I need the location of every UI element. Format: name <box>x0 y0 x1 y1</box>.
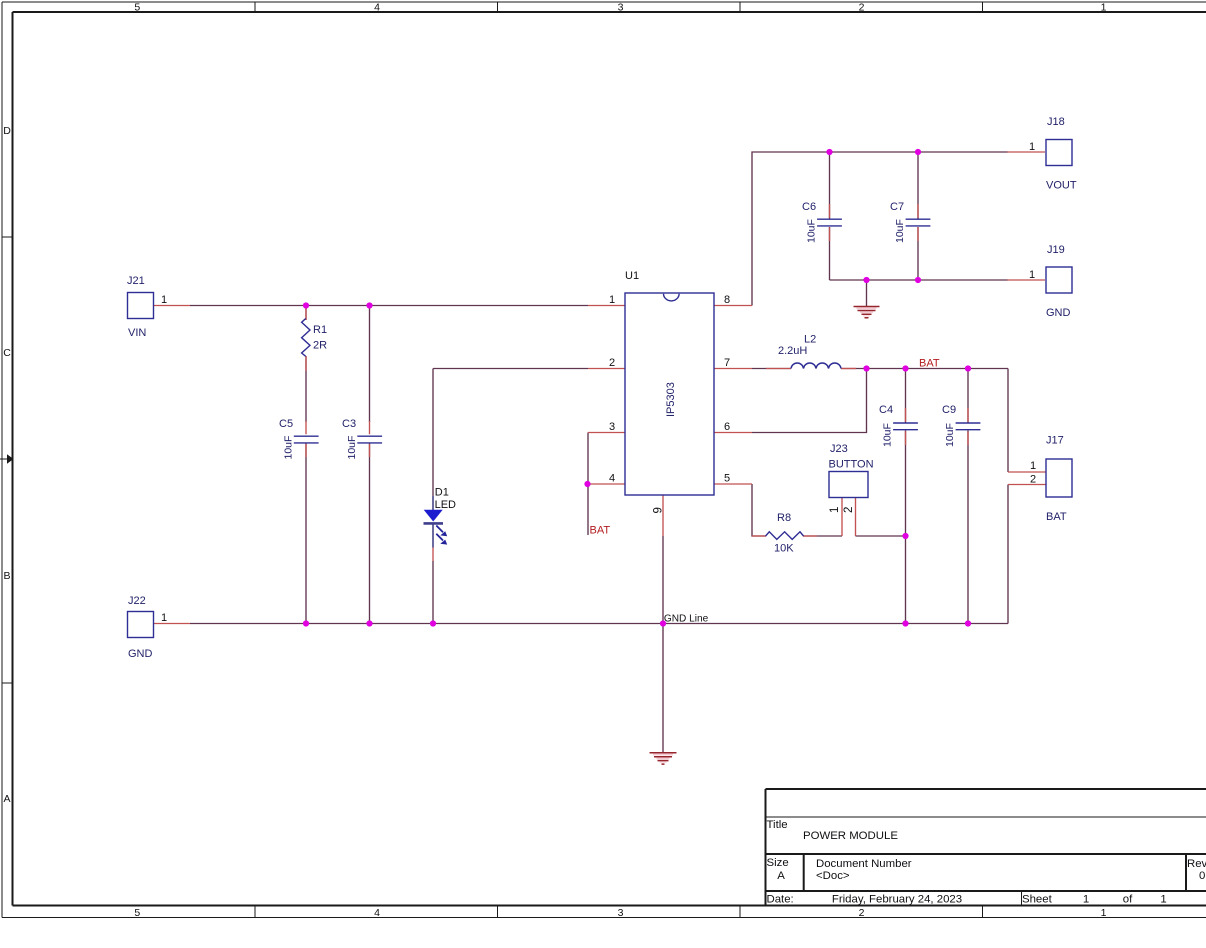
wire gnd bus bottom <box>190 623 1008 625</box>
svg-text:IP5303: IP5303 <box>665 382 677 417</box>
svg-text:1: 1 <box>829 507 841 513</box>
junction R1 top on VIN wire <box>303 302 309 308</box>
svg-text:Size: Size <box>767 857 789 869</box>
svg-text:4: 4 <box>374 1 380 13</box>
svg-text:1: 1 <box>609 294 615 306</box>
pin U1 pin4 <box>588 483 625 485</box>
svg-text:4: 4 <box>374 907 380 919</box>
junction D1 bottom on gnd bus <box>430 620 436 626</box>
svg-text:D1: D1 <box>435 487 449 499</box>
wire C7 top leg <box>917 152 919 219</box>
IC U1 IP5303 <box>609 270 730 514</box>
pin J23 pin2 <box>855 498 857 537</box>
pin R8 left <box>752 535 766 537</box>
junction C4 top on BAT wire <box>902 365 908 371</box>
ground symbol bottom <box>650 753 677 764</box>
junction C7 top on VOUT wire <box>915 149 921 155</box>
capacitor C7 <box>890 201 930 243</box>
junction pin4 on pin3 riser <box>584 481 590 487</box>
border column labels bottom <box>134 907 1106 919</box>
junction C9 bottom on gnd bus <box>965 620 971 626</box>
border column ticks top <box>255 2 983 12</box>
resistor R1 <box>302 319 328 357</box>
capacitor C9 <box>942 404 980 447</box>
svg-text:J18: J18 <box>1047 116 1065 128</box>
svg-text:7: 7 <box>724 357 730 369</box>
svg-text:L2: L2 <box>804 334 816 346</box>
svg-text:2: 2 <box>1030 474 1036 486</box>
junction C3 top on VIN wire <box>366 302 372 308</box>
title block text Size <box>767 857 789 882</box>
svg-text:C9: C9 <box>942 404 956 416</box>
svg-text:A: A <box>777 870 785 882</box>
wire U1 pin7 to L2 <box>752 368 791 370</box>
pin C3 stubs <box>369 421 371 457</box>
svg-text:10uF: 10uF <box>882 423 894 447</box>
pin U1 pin7 <box>714 368 752 370</box>
svg-text:R1: R1 <box>313 324 327 336</box>
connector J18 <box>1029 116 1077 192</box>
junction C7 bottom on bus <box>915 277 921 283</box>
net label BAT right <box>919 358 940 370</box>
wire C4 top leg <box>905 369 907 423</box>
wire pin8 riser and VOUT top <box>752 152 1008 306</box>
LED D1 <box>424 487 457 548</box>
pin U1 pin6 <box>714 432 752 434</box>
svg-text:4: 4 <box>609 473 615 485</box>
wire L2 to BAT corner <box>841 368 1008 370</box>
svg-text:1: 1 <box>1029 141 1035 153</box>
svg-text:5: 5 <box>134 1 140 13</box>
svg-text:1: 1 <box>1101 907 1107 919</box>
svg-text:J21: J21 <box>127 275 145 287</box>
svg-text:2: 2 <box>609 357 615 369</box>
svg-text:1: 1 <box>161 612 167 624</box>
junction C6 top on VOUT wire <box>826 149 832 155</box>
pin J23 pin1 <box>841 498 843 537</box>
border column labels top <box>134 1 1106 13</box>
net label BAT left <box>590 524 611 536</box>
svg-text:2: 2 <box>859 1 865 13</box>
wire C7 bottom leg <box>917 227 919 280</box>
svg-text:of: of <box>1123 894 1133 906</box>
pin L2 right <box>841 368 856 370</box>
svg-text:10K: 10K <box>774 543 794 555</box>
wire C9 bottom leg <box>967 431 969 624</box>
svg-text:J23: J23 <box>830 443 848 455</box>
svg-text:Rev: Rev <box>1187 858 1206 870</box>
junction ground stub on C6 C7 bus <box>863 277 869 283</box>
junction J23 pin2 wire on C4 leg <box>902 533 908 539</box>
pin J18 pin1 <box>1007 151 1045 153</box>
wire BAT corner down to J17 pin1 <box>1007 369 1009 473</box>
pin J22 pin1 <box>154 623 191 625</box>
svg-text:POWER MODULE: POWER MODULE <box>803 830 898 842</box>
pin C6 stubs <box>829 204 831 241</box>
pin U1 pin1 <box>588 305 625 307</box>
svg-text:2: 2 <box>843 507 855 513</box>
pin U1 pin8 <box>714 305 752 307</box>
net label GND Line <box>664 613 709 624</box>
svg-text:10uF: 10uF <box>283 436 295 460</box>
wire C9 top leg <box>967 369 969 423</box>
wire bus C6 to J19 <box>830 279 1009 281</box>
title block text POWER MODULE <box>803 830 898 842</box>
svg-text:Sheet: Sheet <box>1022 894 1053 906</box>
capacitor C5 <box>279 418 319 460</box>
title block text Date <box>767 894 963 906</box>
wire U1 pin2 to LED riser <box>433 368 588 370</box>
wire J17 pin2 down to gnd bus <box>1007 485 1009 624</box>
svg-text:C4: C4 <box>879 404 893 416</box>
svg-text:1: 1 <box>1029 269 1035 281</box>
svg-text:D: D <box>3 125 11 137</box>
svg-text:J19: J19 <box>1047 244 1065 256</box>
wire U1 pin9 down to ground <box>662 536 664 752</box>
capacitor C3 <box>342 418 382 460</box>
wire U1 pin6 riser <box>752 369 867 433</box>
pin J17 pin1 <box>1008 471 1046 473</box>
svg-text:BUTTON: BUTTON <box>829 458 874 470</box>
svg-text:VIN: VIN <box>128 327 146 339</box>
svg-text:1: 1 <box>1160 894 1166 906</box>
svg-text:1: 1 <box>1083 894 1089 906</box>
pin R8 right <box>803 535 817 537</box>
svg-text:3: 3 <box>609 421 615 433</box>
wire U1 pin5 to R8 <box>752 484 766 536</box>
connector J23 BUTTON <box>829 443 874 513</box>
wire LED bottom leg <box>432 561 434 624</box>
wire U1 pin3 riser to BAT stub <box>587 433 589 536</box>
pin J19 pin1 <box>1007 279 1045 281</box>
svg-text:J17: J17 <box>1046 435 1064 447</box>
connector J19 <box>1029 244 1072 319</box>
svg-text:1: 1 <box>161 294 167 306</box>
wire LED top leg <box>432 369 434 497</box>
connector J22 <box>128 595 168 660</box>
junction pin6 riser on BAT wire <box>863 365 869 371</box>
svg-text:GND: GND <box>128 648 153 660</box>
junction C3 bottom on gnd bus <box>366 620 372 626</box>
resistor R8 <box>766 512 804 555</box>
svg-text:Title: Title <box>767 819 788 831</box>
wire C3 legs <box>369 306 371 624</box>
pin U1 pin9 <box>662 495 664 536</box>
pin C4 stubs <box>905 408 907 445</box>
svg-text:B: B <box>3 570 10 582</box>
capacitor C6 <box>802 201 842 243</box>
svg-text:6: 6 <box>724 421 730 433</box>
wire C4 bottom leg to gnd bus <box>905 431 907 624</box>
svg-text:GND Line: GND Line <box>664 613 709 624</box>
svg-text:2.2uH: 2.2uH <box>778 345 807 357</box>
wire R8 to J23 pin1 <box>803 535 842 537</box>
ground symbol top right <box>854 307 880 318</box>
pin C5 stubs <box>305 421 307 457</box>
pin J21 pin1 <box>154 305 191 307</box>
svg-text:U1: U1 <box>625 270 639 282</box>
border row labels left <box>3 125 11 805</box>
svg-text:10uF: 10uF <box>894 219 906 243</box>
wire R1 C5 link <box>305 306 307 624</box>
title block lines <box>766 789 1206 906</box>
inductor L2 <box>778 334 841 369</box>
svg-text:9: 9 <box>653 507 665 513</box>
svg-text:VOUT: VOUT <box>1046 180 1077 192</box>
junction pin9 wire on gnd bus <box>660 620 666 626</box>
pin D1 bottom <box>432 548 434 562</box>
svg-text:LED: LED <box>435 499 456 511</box>
title block text Title <box>767 819 788 831</box>
svg-text:3: 3 <box>618 907 624 919</box>
svg-text:R8: R8 <box>777 512 791 524</box>
svg-text:10uF: 10uF <box>944 423 956 447</box>
svg-text:2: 2 <box>859 907 865 919</box>
svg-text:5: 5 <box>134 907 140 919</box>
svg-text:1: 1 <box>1101 1 1107 13</box>
border column ticks bottom <box>255 906 983 918</box>
pin R1 bottom <box>305 356 307 371</box>
border row ticks left <box>2 237 13 683</box>
pin U1 pin3 <box>588 432 625 434</box>
svg-text:10uF: 10uF <box>806 219 818 243</box>
title block text Sheet <box>1022 894 1167 906</box>
svg-text:C3: C3 <box>342 418 356 430</box>
wire VIN J21 to U1 pin1 <box>190 305 588 307</box>
svg-text:1: 1 <box>1030 460 1036 472</box>
connector J21 <box>127 275 167 339</box>
svg-text:8: 8 <box>724 294 730 306</box>
pin U1 pin5 <box>714 483 752 485</box>
pin R1 top <box>305 307 307 320</box>
svg-text:C6: C6 <box>802 201 816 213</box>
svg-text:BAT: BAT <box>1046 511 1067 523</box>
svg-text:J22: J22 <box>128 595 146 607</box>
svg-text:<Doc>: <Doc> <box>816 870 850 882</box>
svg-text:C: C <box>3 347 11 359</box>
junction C9 top on BAT wire <box>965 365 971 371</box>
junction C5 bottom on gnd bus <box>303 620 309 626</box>
connector J17 <box>1030 435 1072 524</box>
pin U1 pin2 <box>588 368 625 370</box>
svg-text:C7: C7 <box>890 201 904 213</box>
title block text Rev <box>1187 858 1206 882</box>
pin L2 left <box>766 368 791 370</box>
svg-text:Friday, February 24, 2023: Friday, February 24, 2023 <box>832 894 962 906</box>
svg-text:GND: GND <box>1046 307 1071 319</box>
junction C4 bottom on gnd bus <box>902 620 908 626</box>
svg-text:Document Number: Document Number <box>816 858 912 870</box>
svg-text:2R: 2R <box>313 340 327 352</box>
title block text Document Number <box>816 858 912 882</box>
wire J23 pin2 to C4 leg <box>856 535 906 537</box>
svg-text:A: A <box>3 793 10 805</box>
pin J17 pin2 <box>1008 484 1046 486</box>
svg-text:0: 0 <box>1199 870 1205 882</box>
wire C6 top leg <box>829 152 831 219</box>
pin C9 stubs <box>967 408 969 445</box>
wire C6 bottom leg <box>829 227 831 280</box>
svg-text:5: 5 <box>724 473 730 485</box>
wire ground stub top right <box>866 280 868 306</box>
svg-text:Date:: Date: <box>767 894 794 906</box>
capacitor C4 <box>879 404 918 447</box>
svg-text:3: 3 <box>618 1 624 13</box>
svg-text:BAT: BAT <box>590 524 611 536</box>
svg-text:10uF: 10uF <box>346 436 358 460</box>
pin C7 stubs <box>917 204 919 241</box>
border arrow left mid <box>0 454 14 464</box>
svg-text:BAT: BAT <box>919 358 940 370</box>
svg-text:C5: C5 <box>279 418 293 430</box>
